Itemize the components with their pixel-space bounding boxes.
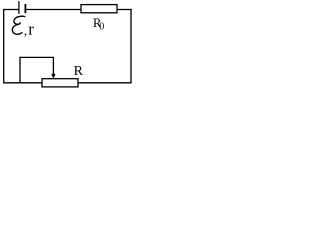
- svg-text:,: ,: [24, 23, 27, 38]
- wire bottom-left segment: [3, 82, 42, 84]
- wire R0 to right border: [117, 9, 132, 11]
- wire bottom-right segment: [78, 82, 132, 84]
- resistor R0 box: [81, 5, 117, 13]
- wire wiper branch: bottom tap up, across, down to arrow: [20, 57, 53, 83]
- wire battery to R0: [26, 9, 81, 11]
- rheostat R box: [42, 79, 78, 87]
- svg-text:R: R: [74, 64, 84, 79]
- battery E short plate: [24, 4, 26, 13]
- wire top-left segment: [4, 9, 19, 11]
- svg-text:r: r: [28, 19, 34, 38]
- wire left border: [3, 9, 5, 84]
- label EMF script E: [12, 16, 25, 34]
- svg-text:0: 0: [99, 22, 104, 33]
- wire right border: [130, 9, 132, 84]
- rheostat wiper arrowhead: [51, 74, 55, 79]
- battery E long plate: [18, 1, 20, 14]
